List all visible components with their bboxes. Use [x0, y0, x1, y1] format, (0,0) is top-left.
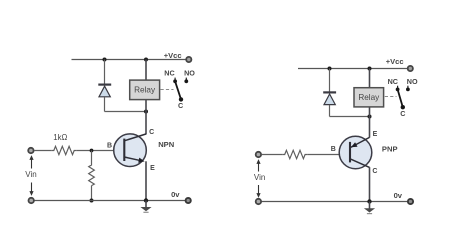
- node: junction dot collector/rail (right): [367, 199, 371, 203]
- wire: diode return to relay branch (left): [105, 111, 147, 113]
- svg-text:NC: NC: [388, 77, 398, 86]
- svg-text:NO: NO: [184, 69, 195, 78]
- pin: NO contact dot (right): [406, 88, 410, 92]
- svg-text:0v: 0v: [171, 190, 180, 199]
- resistor R1 1kOhm: [52, 146, 77, 154]
- transistor Q2 emitter arrowhead: [351, 142, 358, 147]
- arrow: Vin upper (right): [258, 163, 260, 172]
- pin: NC contact stem (left): [174, 78, 176, 82]
- wire: diode top lead (right): [329, 69, 331, 92]
- svg-text:0v: 0v: [394, 191, 403, 200]
- transistor Q1 emitter stroke: [124, 157, 141, 161]
- node: junction dot rail/relay (right): [368, 67, 372, 71]
- diode D2 cathode bar: [323, 91, 336, 93]
- wire: input lead (right): [262, 154, 283, 156]
- diode D1 cathode bar: [98, 83, 111, 85]
- node: junction dot rail/relay (left): [144, 58, 148, 62]
- wire: bottom rail (right): [258, 201, 407, 203]
- pin: NO contact dot (left): [184, 79, 188, 83]
- transistor Q2 base bar: [349, 142, 351, 163]
- svg-text:Vin: Vin: [254, 173, 265, 182]
- svg-text:E: E: [373, 131, 378, 138]
- terminal +Vcc (right): [408, 66, 413, 71]
- wire: left +Vcc top rail: [72, 59, 187, 61]
- svg-text:B: B: [107, 142, 112, 149]
- pin: NO contact stem (right): [407, 86, 409, 90]
- terminal +Vcc (left): [186, 57, 191, 62]
- diode D1 body: [99, 86, 110, 97]
- terminal Vin bottom (right): [256, 199, 261, 204]
- svg-text:Relay: Relay: [134, 85, 156, 94]
- terminal 0v (left): [186, 198, 191, 203]
- wire: collector to ground rail (right): [369, 167, 371, 201]
- terminal Vin bottom (left): [29, 198, 34, 203]
- wire: ground stem (right): [369, 202, 371, 209]
- wire: dashed actuator link (right): [385, 96, 397, 98]
- wire: input lead (left): [34, 150, 52, 152]
- ground symbol (right): [364, 208, 375, 212]
- svg-text:Relay: Relay: [358, 93, 380, 102]
- wire: bottom rail (left): [31, 200, 186, 202]
- svg-text:Vin: Vin: [25, 170, 36, 179]
- wire: emitter to ground rail (left): [145, 161, 147, 200]
- arrow: Vin lower (left): [31, 183, 33, 193]
- resistor R3: [283, 150, 308, 158]
- transistor Q2 body: [339, 136, 372, 169]
- relay K2 box: [354, 88, 384, 107]
- transistor Q1 base bar: [123, 139, 125, 161]
- svg-text:PNP: PNP: [382, 145, 398, 154]
- svg-text:1kΩ: 1kΩ: [53, 133, 67, 142]
- transistor Q2 collector stroke: [350, 159, 370, 168]
- arrow: Vin upper (left): [31, 159, 33, 169]
- svg-text:+Vcc: +Vcc: [164, 51, 182, 60]
- svg-text:NC: NC: [164, 69, 174, 78]
- svg-text:C: C: [178, 101, 183, 110]
- wire: pulldown bottom lead: [91, 186, 93, 201]
- pin: NC contact stem (right): [397, 86, 399, 90]
- ground underline (left): [143, 211, 148, 213]
- wire: base wire (right): [307, 154, 350, 156]
- node: junction dot base/pulldown: [90, 149, 94, 153]
- terminal Vin top (left): [28, 148, 33, 153]
- ground symbol (left): [140, 207, 151, 211]
- wire: base wire (left): [76, 150, 124, 152]
- transistor Q1 collector stroke: [124, 134, 146, 141]
- wire: diode return to relay branch (right): [330, 116, 370, 118]
- transistor Q2 emitter stroke: [351, 137, 370, 147]
- svg-text:NPN: NPN: [158, 140, 174, 149]
- relay K1 box: [130, 80, 160, 100]
- wire: relay/collector vertical line (left): [145, 60, 147, 135]
- svg-text:C: C: [149, 129, 154, 136]
- pin: NC contact dot (right): [396, 88, 400, 92]
- transistor Q1 body: [114, 134, 147, 167]
- svg-text:B: B: [331, 146, 336, 153]
- pin: NO contact stem (left): [185, 78, 187, 82]
- terminal Vin top (right): [256, 152, 261, 157]
- wire: diode bottom lead (left): [104, 97, 106, 112]
- node: junction dot pulldown/rail: [90, 199, 94, 203]
- transistor Q1 emitter arrowhead: [138, 158, 144, 163]
- pin: C common dot (right): [401, 105, 405, 109]
- node: junction dot diode return (left): [144, 110, 148, 114]
- switch lever (right): [398, 89, 403, 107]
- wire: pulldown top lead: [91, 151, 93, 165]
- pin: C common dot (left): [179, 97, 183, 101]
- svg-text:C: C: [372, 168, 377, 175]
- diode D2 body: [324, 94, 335, 105]
- node: junction dot rail/diode (right): [328, 67, 332, 71]
- svg-text:E: E: [150, 165, 155, 172]
- wire: right +Vcc top rail: [298, 68, 408, 70]
- wire: diode bottom lead (right): [329, 105, 331, 117]
- resistor R2 pulldown: [89, 165, 95, 186]
- wire: ground stem (left): [145, 201, 147, 208]
- wire: relay/emitter vertical line (right): [369, 69, 371, 138]
- terminal 0v (right): [408, 199, 413, 204]
- ground underline (right): [367, 213, 372, 215]
- node: junction dot rail/diode (left): [103, 58, 107, 62]
- node: junction dot diode return (right): [368, 115, 372, 119]
- svg-text:C: C: [400, 109, 405, 118]
- wire: diode top lead (left): [104, 60, 106, 85]
- pin: NC contact dot (left): [173, 79, 177, 83]
- svg-text:+Vcc: +Vcc: [386, 57, 404, 66]
- node: junction dot emitter/rail (left): [144, 198, 148, 202]
- switch lever (left): [175, 81, 181, 99]
- svg-text:NO: NO: [407, 77, 418, 86]
- wire: dashed actuator link (left): [161, 89, 174, 91]
- arrow: Vin lower (right): [258, 185, 260, 195]
